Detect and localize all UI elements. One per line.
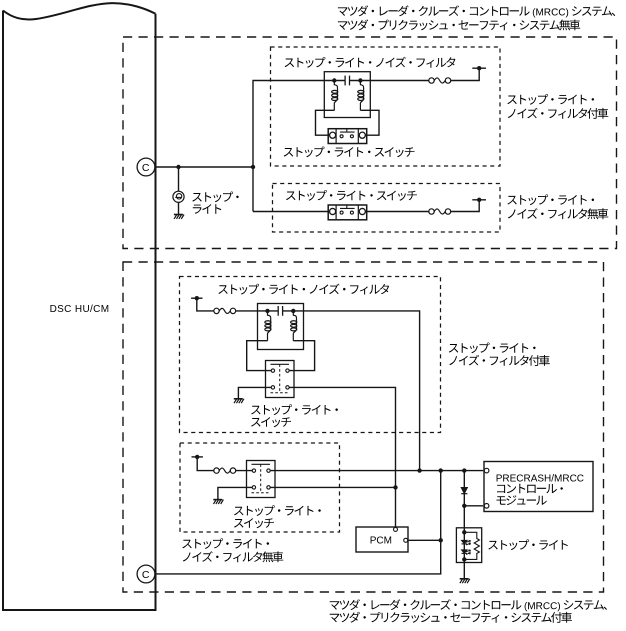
wire L2 out loop to switch SW1 (360, 110, 379, 135)
ground (lamp) (174, 215, 184, 219)
label PRECRASH module line 3 (497, 495, 547, 505)
wire to module lower terminal (464, 505, 483, 507)
wire PCM to return wire (408, 539, 441, 541)
wire lamp drop (178, 167, 180, 191)
wire LED unit to ground (463, 563, 465, 579)
ground (SW4) (213, 500, 223, 504)
stop light noise filter box (top) (324, 72, 370, 118)
node filter L2 tap (358, 78, 362, 82)
label system title bottom line 1 (330, 599, 607, 611)
label without-noise-filter variant line 1 (bottom) (182, 538, 269, 549)
DSC HU/CM unit box (torn-edge outline) (3, 3, 156, 610)
svg-text:DSC HU/CM: DSC HU/CM (50, 304, 110, 315)
stop light switch SW4 (double-pole type) (247, 461, 276, 498)
wire diode drop (463, 471, 465, 528)
node filter2 output on bus (417, 468, 421, 472)
ground (SW3) (234, 399, 244, 403)
label stop light switch SW3 line 2 (251, 417, 291, 427)
node SW4/PCM junction (393, 485, 397, 489)
module terminal pin (upper) (484, 468, 489, 473)
wire connector to branch B end (451, 200, 486, 212)
stop light LED unit box (456, 528, 481, 563)
resistor R1 (parallel) (464, 532, 479, 559)
inline connector pair (bottom no-filter branch) (214, 468, 236, 473)
LED 2 (462, 550, 471, 555)
wire branch B from splitter to switch SW2 (253, 211, 330, 213)
wire filter internal left (324, 80, 345, 82)
stop light switch SW2 (plunger type) (328, 205, 367, 220)
wire feed to inline connector (197, 298, 214, 311)
node feed splice (bottom filter branch) (191, 296, 202, 300)
ground (LED unit) (460, 579, 470, 583)
node branch A end splice (477, 66, 481, 70)
stop light switch SW3 (double-pole type) (266, 361, 295, 398)
wire connector to branch end (451, 68, 486, 80)
inductor L2 (358, 81, 364, 111)
connector C (bottom) (137, 565, 155, 583)
wire SW4 top row to module bus (270, 470, 483, 472)
wire SW3 ground leg (238, 387, 271, 398)
node filter L1 tap (332, 78, 336, 82)
LED 1 (462, 540, 471, 545)
module terminal pin (lower) (484, 504, 489, 509)
wire return to connector C bottom (155, 471, 441, 574)
wire feed to inline connector (no-filter branch) (197, 457, 214, 471)
inductor L1 (332, 81, 338, 111)
wire SW4 bottom row to PCM node (270, 486, 395, 488)
node PCM return junction (439, 538, 443, 542)
outer dashed box: MRCC system present (bottom section) (123, 262, 604, 592)
label stop light LED lamp (488, 539, 568, 550)
label stop light switch SW3 line 1 (251, 404, 338, 415)
svg-text:C: C (142, 569, 150, 581)
inductor L4 (291, 311, 297, 341)
outer dashed box: MRCC system absent (top section) (123, 37, 617, 249)
diode D1 (461, 488, 467, 494)
label without-noise-filter variant line 2 (top) (508, 208, 609, 219)
capacitor C1 (345, 76, 349, 86)
label stop light switch SW4 line 1 (234, 505, 321, 516)
inner dashed box: noise filter variant (bottom) (180, 277, 441, 433)
label with-noise-filter variant line 2 (top) (508, 108, 609, 119)
wire L3 out loop to switch SW3 (247, 341, 272, 371)
node: lamp tap junction (176, 165, 180, 169)
label system title top line 2 (338, 19, 580, 30)
node return-wire tap on bus (439, 468, 443, 472)
inner dashed box: no noise filter variant (bottom) (180, 443, 340, 532)
PCM box (356, 527, 408, 552)
inductor L3 (265, 311, 271, 341)
connector C (top) (137, 158, 155, 176)
PCM terminal pin (right) (404, 538, 408, 542)
svg-text:PCM: PCM (370, 535, 392, 546)
capacitor C2 (278, 306, 282, 316)
node feed splice (bottom no-filter branch) (192, 455, 203, 459)
wire SW3 output down to PCM (289, 387, 395, 527)
inline connector pair (top branch A) (429, 78, 451, 83)
node branch B end splice (477, 198, 481, 202)
wire connector to filter box (236, 310, 258, 312)
wire vertical branch splitter (253, 81, 324, 212)
stop light switch SW1 (plunger type) (328, 129, 367, 144)
label with-noise-filter variant line 1 (bottom) (449, 343, 536, 354)
inline connector pair (bottom filter branch) (214, 308, 236, 313)
node LED bottom (462, 557, 466, 561)
label stop light switch SW4 line 2 (234, 518, 274, 528)
label without-noise-filter variant line 1 (top) (507, 194, 594, 205)
label PRECRASH module line 2 (497, 484, 563, 494)
node diode tap on bus (462, 468, 466, 472)
label stop light noise filter (bottom) (218, 284, 389, 295)
label without-noise-filter variant line 2 (bottom) (183, 551, 283, 562)
PRECRASH/MRCC control module box (484, 462, 593, 512)
inline connector pair (top branch B) (429, 209, 451, 214)
label stop light switch SW1 (284, 147, 415, 158)
wire filter output to inline connector (370, 80, 429, 82)
label with-noise-filter variant line 1 (top) (507, 94, 594, 105)
wire filter2 internal right and output (283, 311, 420, 471)
wire through LED unit (463, 528, 465, 563)
stop light lamp (top) (173, 191, 184, 202)
node: branch T junction (251, 165, 255, 169)
node filter2 L3 tap (265, 309, 269, 313)
label stop light lamp line 1 (192, 192, 238, 203)
wire SW4 ground leg (218, 487, 252, 499)
node filter2 L4 tap (291, 309, 295, 313)
inner dashed box: no noise filter variant (top) (273, 184, 501, 233)
svg-text:C: C (142, 162, 150, 174)
wire lamp to ground (178, 202, 180, 214)
stop light noise filter box (bottom) (258, 304, 304, 350)
svg-text:PRECRASH/MRCC: PRECRASH/MRCC (496, 473, 584, 484)
wire L4 out loop to switch SW3 (289, 341, 314, 371)
label stop light lamp line 2 (193, 204, 222, 214)
node diode-module junction (462, 504, 466, 508)
wire SW2 to inline connector (365, 211, 429, 213)
label system title bottom line 2 (330, 612, 572, 623)
wire L1 out loop to switch SW1 (316, 110, 335, 135)
wire filter2 internal left (258, 310, 279, 312)
label stop light switch SW2 (286, 190, 417, 201)
inner dashed box: noise filter variant (top) (271, 47, 501, 166)
wire from connector C to branch node (155, 166, 253, 168)
node LED top (462, 530, 466, 534)
label stop light noise filter (top) (285, 57, 456, 68)
label system title top line 1 (338, 5, 615, 17)
PCM terminal pin (top) (394, 527, 398, 531)
label with-noise-filter variant line 2 (bottom) (449, 355, 550, 366)
wire connector to switch SW4 (236, 470, 253, 472)
wire filter internal right (350, 80, 371, 82)
